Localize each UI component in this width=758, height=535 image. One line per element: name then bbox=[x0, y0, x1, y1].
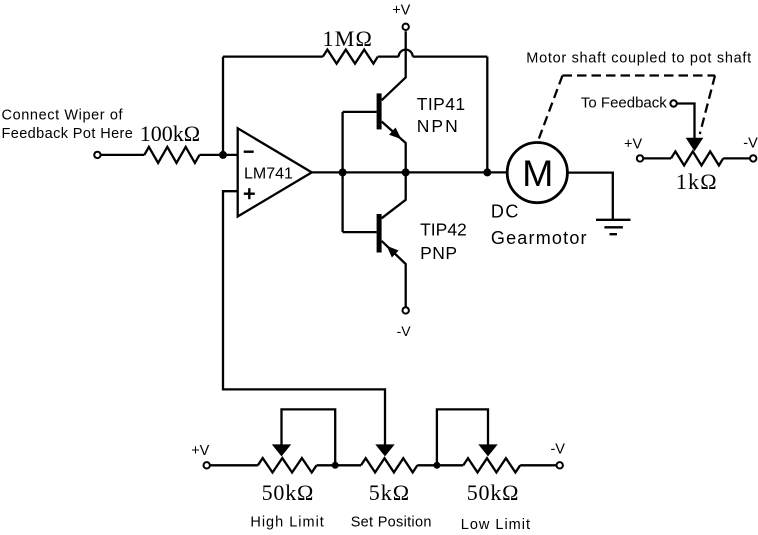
svg-text:50kΩ: 50kΩ bbox=[467, 480, 520, 505]
terminal: -V supply bbox=[403, 307, 409, 313]
svg-text:To Feedback: To Feedback bbox=[581, 95, 667, 112]
svg-text:TIP41: TIP41 bbox=[417, 94, 466, 114]
wire: +V to high limit pot bbox=[210, 464, 258, 466]
terminal: input wiper terminal bbox=[94, 152, 100, 158]
node: high limit junction bbox=[332, 462, 339, 469]
potentiometer R5 wiper arrow bbox=[375, 444, 394, 456]
wire: non-inverting input down to set-position wiper bbox=[223, 191, 385, 444]
potentiometer R6 50kΩ low limit zigzag bbox=[463, 458, 520, 472]
wire: 1k pot to -V terminal bbox=[723, 157, 750, 159]
op-amp U1 minus sign bbox=[244, 150, 254, 152]
op-amp U1 plus sign bbox=[244, 188, 255, 199]
terminal: +V bottom bbox=[204, 462, 210, 468]
transistor Q2 TIP42 emitter path bbox=[382, 241, 406, 307]
terminal: to feedback bbox=[670, 100, 676, 106]
svg-text:1MΩ: 1MΩ bbox=[323, 26, 374, 51]
potentiometer R3 1kΩ wiper arrow bbox=[686, 138, 704, 151]
svg-text:-V: -V bbox=[397, 323, 412, 339]
wire: top feedback horizontal left segment bbox=[223, 55, 323, 57]
svg-text:1kΩ: 1kΩ bbox=[676, 169, 718, 194]
wire: feedback right vertical down to output node bbox=[486, 57, 488, 173]
svg-text:-V: -V bbox=[550, 442, 565, 458]
transistor Q1 TIP41 base bar bbox=[377, 93, 382, 129]
node: base drive junction bbox=[339, 168, 347, 176]
transistor Q2 TIP42 collector path bbox=[382, 172, 406, 218]
label: TIP42 PNP bbox=[420, 220, 467, 264]
potentiometer R4 50kΩ high limit zigzag bbox=[258, 458, 317, 472]
svg-text:Motor shaft coupled to pot sha: Motor shaft coupled to pot shaft bbox=[526, 51, 752, 67]
svg-text:100kΩ: 100kΩ bbox=[140, 121, 200, 146]
terminal: -V bottom bbox=[557, 462, 563, 468]
wire: low limit wiper loop bbox=[437, 409, 488, 465]
transistor Q1 TIP41 collector path from +V bbox=[382, 31, 406, 100]
wire: base bus vertical bbox=[341, 112, 343, 232]
potentiometer R6 wiper arrow bbox=[478, 444, 497, 456]
svg-text:+V: +V bbox=[191, 443, 209, 459]
node: inverting input junction dot bbox=[219, 151, 227, 159]
wire: R1 to op-amp inverting input bbox=[200, 154, 238, 156]
svg-text:5kΩ: 5kΩ bbox=[369, 480, 410, 505]
wire: 1MΩ to hop bbox=[378, 55, 399, 57]
label: DC Gearmotor bbox=[491, 202, 588, 248]
wire: low limit pot to -V terminal bbox=[520, 464, 556, 466]
dashed coupling line to motor shaft bbox=[539, 76, 563, 139]
node: low limit junction bbox=[433, 462, 440, 469]
wire: set position to low limit pot bbox=[417, 464, 463, 466]
potentiometer R5 5kΩ set position zigzag bbox=[361, 458, 417, 472]
svg-text:+V: +V bbox=[392, 3, 410, 19]
terminal: feedback pot -V bbox=[750, 155, 756, 161]
terminal: +V supply bbox=[403, 24, 409, 30]
svg-text:+V: +V bbox=[624, 137, 642, 153]
svg-text:Feedback Pot Here: Feedback Pot Here bbox=[2, 126, 134, 142]
svg-text:50kΩ: 50kΩ bbox=[262, 480, 315, 505]
svg-text:M: M bbox=[522, 152, 553, 194]
svg-text:DC: DC bbox=[491, 202, 520, 222]
transistor Q1 TIP41 emitter arrow bbox=[389, 128, 401, 140]
svg-text:Gearmotor: Gearmotor bbox=[491, 228, 588, 248]
svg-text:TIP42: TIP42 bbox=[420, 220, 467, 240]
op-amp U1 LM741 triangle bbox=[238, 128, 312, 216]
resistor R2 1MΩ zigzag bbox=[323, 50, 378, 64]
motor M1 circle bbox=[507, 143, 567, 203]
wire: high limit wiper loop bbox=[282, 409, 336, 465]
svg-text:LM741: LM741 bbox=[244, 166, 293, 183]
resistor R1 100kΩ zigzag bbox=[144, 147, 199, 163]
svg-text:Set Position: Set Position bbox=[351, 515, 432, 531]
potentiometer R3 1kΩ zigzag bbox=[671, 151, 723, 165]
wire: high limit to set position pot bbox=[317, 464, 361, 466]
svg-text:High Limit: High Limit bbox=[250, 515, 324, 531]
svg-text:Connect Wiper of: Connect Wiper of bbox=[2, 108, 124, 124]
node: feedback junction bbox=[483, 168, 491, 176]
ground symbol bbox=[596, 220, 631, 234]
transistor Q1 TIP41 emitter path bbox=[382, 122, 406, 173]
transistor Q2 TIP42 emitter arrow bbox=[387, 246, 399, 258]
wire: input terminal to R1 bbox=[101, 154, 145, 156]
transistor Q2 TIP42 base wire bbox=[343, 231, 377, 233]
dashed coupling line horizontal bbox=[563, 74, 716, 76]
wire: hop to top right corner bbox=[413, 55, 488, 57]
wire: +V terminal to 1k pot bbox=[643, 157, 671, 159]
wire: op-amp output to motor bbox=[312, 171, 508, 173]
transistor Q1 TIP41 base wire bbox=[343, 111, 377, 113]
label: TIP41 NPN bbox=[417, 94, 466, 136]
wire: feedback terminal to pot wiper bbox=[677, 104, 695, 139]
svg-text:Low Limit: Low Limit bbox=[461, 517, 531, 533]
wire: motor to ground bbox=[567, 173, 612, 220]
potentiometer R4 wiper arrow bbox=[272, 444, 291, 456]
wire: feedback vertical up from junction bbox=[222, 57, 224, 155]
svg-text:NPN: NPN bbox=[417, 116, 460, 136]
dashed coupling line to pot shaft bbox=[700, 76, 715, 135]
svg-text:-V: -V bbox=[743, 136, 758, 152]
node: emitter junction bbox=[402, 168, 410, 176]
label: Connect Wiper of / Feedback Pot Here bbox=[2, 108, 134, 142]
terminal: feedback pot +V bbox=[637, 155, 643, 161]
svg-text:PNP: PNP bbox=[420, 243, 457, 263]
transistor Q2 TIP42 base bar bbox=[377, 214, 382, 253]
wire hop over +V line bbox=[399, 50, 413, 57]
